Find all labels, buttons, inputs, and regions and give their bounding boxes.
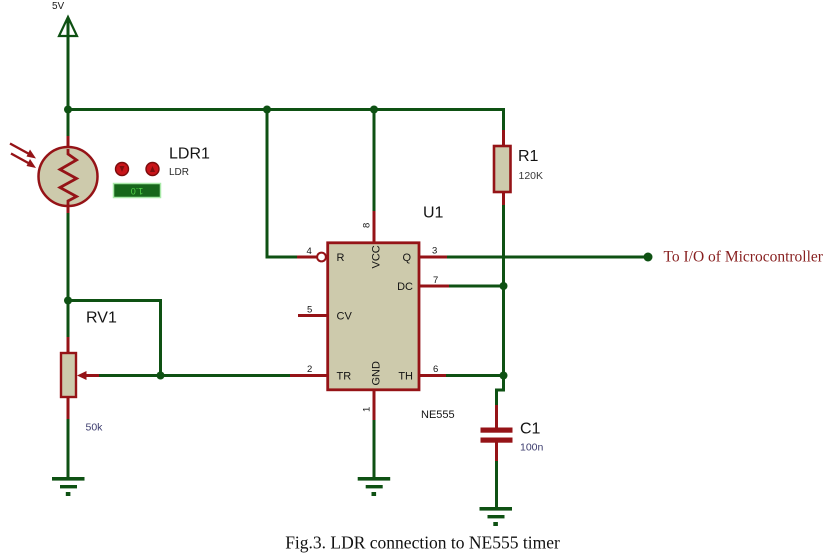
U1 pin number 7: [433, 275, 438, 286]
IC U1 NE555 body: [328, 243, 419, 390]
svg-text:6: 6: [433, 364, 438, 375]
svg-text:Fig.3. LDR connection to NE555: Fig.3. LDR connection to NE555 timer: [285, 533, 560, 553]
node To I/O: [644, 253, 653, 262]
U1 pin 8 VCC stub: [373, 211, 376, 242]
junction TH node: [500, 372, 508, 380]
U1 pin number 8: [362, 223, 373, 228]
potentiometer RV1: [61, 337, 99, 420]
label U1: [423, 205, 444, 222]
svg-text:To I/O of Microcontroller: To I/O of Microcontroller: [664, 249, 824, 266]
U1 pin name VCC: [371, 245, 383, 268]
svg-text:3: 3: [432, 246, 437, 257]
label LDR1: [169, 146, 210, 163]
svg-text:120K: 120K: [519, 170, 544, 182]
svg-text:50k: 50k: [86, 422, 104, 434]
junction wiper node: [157, 372, 165, 380]
wire wiper to TR: [98, 374, 291, 377]
capacitor C1: [481, 405, 513, 462]
U1 pin number 6: [433, 364, 438, 375]
label C1: [520, 421, 541, 438]
svg-text:TH: TH: [398, 371, 413, 383]
caption: [285, 533, 560, 553]
ground C1: [480, 507, 513, 526]
U1 pin number 1: [362, 407, 373, 412]
svg-text:100n: 100n: [520, 442, 544, 454]
wire LDR to RV1: [67, 213, 70, 338]
U1 pin 7 DC stub: [419, 285, 450, 288]
wire top rail to R1: [502, 108, 505, 131]
svg-text:R1: R1: [518, 148, 539, 165]
wire top rail: [67, 108, 504, 111]
U1 pin name TR: [337, 371, 352, 383]
svg-text:Q: Q: [402, 252, 411, 264]
svg-text:5: 5: [307, 305, 312, 316]
U1 pin name TH: [398, 371, 413, 383]
LDR1 light level display: [114, 184, 161, 198]
svg-text:LDR: LDR: [169, 167, 189, 178]
U1 pin 6 TH stub: [419, 374, 447, 377]
wire R branch: [267, 110, 298, 258]
ground RV1: [52, 477, 85, 496]
U1 pin number 4: [307, 246, 312, 257]
LDR1 interactive buttons: [116, 163, 160, 176]
svg-text:2: 2: [307, 364, 312, 375]
U1 pin 5 CV stub: [298, 314, 327, 317]
U1 pin 3 Q stub: [419, 256, 448, 259]
wire R1 to TH node: [502, 205, 505, 376]
U1 pin name DC: [397, 281, 413, 293]
U1 pin name R: [337, 252, 345, 264]
junction DC node: [500, 282, 508, 290]
svg-text:1: 1: [362, 407, 373, 412]
svg-text:DC: DC: [397, 281, 413, 293]
svg-text:TR: TR: [337, 371, 352, 383]
ground U1: [358, 477, 391, 496]
U1 pin number 3: [432, 246, 437, 257]
value 120K: [519, 170, 544, 182]
wire 5V to LDR: [67, 18, 70, 137]
svg-text:7: 7: [433, 275, 438, 286]
svg-text:GND: GND: [371, 361, 383, 386]
svg-text:U1: U1: [423, 205, 444, 222]
svg-text:1.0: 1.0: [131, 186, 144, 196]
U1 pin 2 TR stub: [290, 374, 327, 377]
wire RV1 to ground: [67, 419, 70, 479]
power symbol 5V: [59, 17, 77, 36]
svg-text:R: R: [337, 252, 345, 264]
resistor R1: [494, 130, 511, 206]
junction LDR / wiper loop: [64, 297, 72, 305]
label RV1: [86, 310, 117, 327]
label 5V: [52, 1, 65, 12]
wire C1 to ground: [495, 461, 498, 509]
wire DC to node: [449, 285, 505, 288]
value 100n: [520, 442, 544, 454]
label NE555: [421, 409, 455, 421]
wire wiper loop: [68, 301, 161, 376]
label To I/O of Microcontroller: [664, 249, 824, 266]
wire TH to node: [446, 374, 505, 377]
U1 pin 1 GND stub: [373, 390, 376, 421]
svg-text:RV1: RV1: [86, 310, 117, 327]
label R1: [518, 148, 539, 165]
junction 5V rail / LDR: [64, 106, 72, 114]
wire TH node to C1: [497, 375, 504, 406]
svg-text:4: 4: [307, 246, 312, 257]
svg-text:5V: 5V: [52, 1, 65, 12]
wire VCC branch: [373, 110, 376, 213]
U1 pin 4 R stub: [297, 253, 326, 262]
LDR LDR1: [10, 136, 98, 214]
U1 pin number 5: [307, 305, 312, 316]
svg-text:C1: C1: [520, 421, 541, 438]
svg-text:NE555: NE555: [421, 409, 455, 421]
junction top rail / VCC branch: [370, 106, 378, 114]
wire U1 GND to ground: [373, 420, 376, 479]
U1 pin name GND: [371, 361, 383, 386]
svg-text:VCC: VCC: [371, 245, 383, 268]
U1 pin name CV: [337, 311, 353, 323]
U1 pin number 2: [307, 364, 312, 375]
wire Q output: [447, 256, 648, 259]
junction top rail / R branch: [263, 106, 271, 114]
U1 pin name Q: [402, 252, 411, 264]
svg-text:LDR1: LDR1: [169, 146, 210, 163]
svg-text:8: 8: [362, 223, 373, 228]
svg-text:CV: CV: [337, 311, 353, 323]
value 50k: [86, 422, 104, 434]
label LDR: [169, 167, 189, 178]
